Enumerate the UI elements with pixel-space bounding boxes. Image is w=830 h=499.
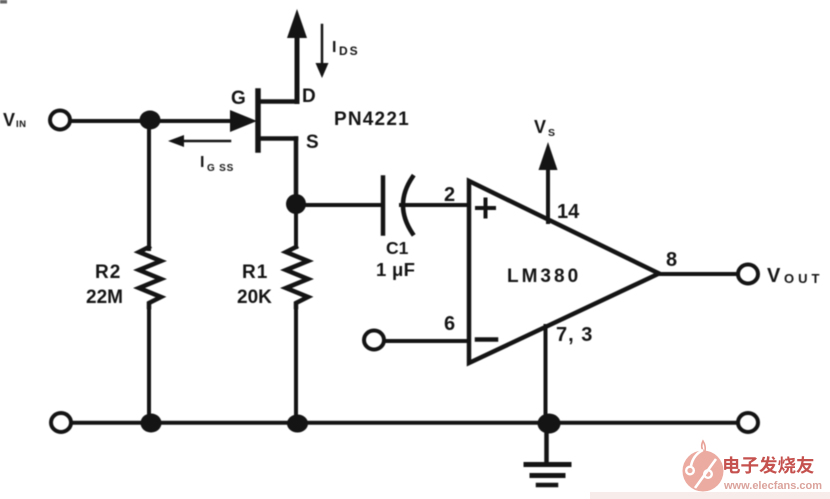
- svg-text:22M: 22M: [86, 287, 123, 308]
- resistor R1 20K: [286, 247, 308, 307]
- svg-text:I: I: [200, 154, 204, 171]
- wire pin 7,3 to ground rail: [544, 326, 548, 422]
- svg-text:OUT: OUT: [784, 271, 823, 286]
- svg-text:S: S: [306, 132, 319, 153]
- svg-text:14: 14: [557, 201, 580, 223]
- node: input junction dot: [140, 111, 161, 130]
- minus input symbol: [477, 337, 496, 342]
- watermark text: [724, 456, 814, 474]
- wire pin 6: [384, 339, 469, 343]
- pin 6 terminal (open circle): [364, 331, 384, 350]
- wire source to C1: [296, 203, 381, 207]
- svg-text:G SS: G SS: [207, 163, 234, 174]
- svg-text:S: S: [548, 127, 555, 139]
- svg-text:I: I: [332, 39, 336, 56]
- label VOUT: [767, 265, 823, 287]
- svg-text:20K: 20K: [237, 287, 272, 308]
- current arrow IDS: [316, 25, 329, 78]
- svg-text:2: 2: [444, 184, 455, 206]
- wire junction down to R2: [147, 121, 151, 249]
- wire source dot to R1: [294, 204, 298, 247]
- output terminal (open circle): [738, 265, 758, 284]
- svg-text:LM380: LM380: [507, 266, 581, 287]
- current arrow IGSS: [168, 135, 230, 147]
- input terminal (open circle): [50, 111, 70, 130]
- svg-text:www.elecfans.com: www.elecfans.com: [723, 480, 822, 492]
- ground symbol: [526, 423, 569, 485]
- svg-text:7, 3: 7, 3: [556, 324, 593, 346]
- svg-text:1 μF: 1 μF: [376, 259, 415, 280]
- right rail terminal (open circle): [738, 413, 758, 432]
- bottom rail wire: [71, 421, 738, 425]
- op-amp U1 LM380: [469, 181, 659, 363]
- svg-text:PN4221: PN4221: [334, 109, 410, 130]
- svg-text:IN: IN: [16, 119, 27, 130]
- capacitor C1: [383, 177, 413, 234]
- scan speck top-left corner: [0, 0, 7, 4]
- node: R2 rail junction: [141, 414, 162, 433]
- resistor R2 22M: [139, 247, 161, 307]
- transistor Q1 PN4221 (JFET): [258, 9, 307, 203]
- wire R1 to rail: [294, 307, 298, 423]
- label IGSS: [200, 154, 234, 174]
- plus input symbol: [477, 200, 494, 217]
- svg-text:8: 8: [666, 249, 677, 271]
- svg-text:6: 6: [444, 313, 455, 335]
- svg-text:D: D: [302, 86, 316, 107]
- left rail terminal (open circle): [51, 413, 71, 432]
- svg-text:DS: DS: [339, 44, 360, 58]
- wire VIN to gate arrow: [70, 119, 233, 123]
- power VS arrow: [539, 142, 558, 222]
- node: amp ground rail junction: [538, 414, 561, 434]
- gate arrowhead into Q1: [230, 110, 257, 132]
- label VIN: [3, 110, 27, 130]
- svg-text:V: V: [767, 265, 781, 287]
- bottom noise strip: [590, 492, 830, 499]
- label VS: [534, 117, 555, 139]
- watermark logo elecfans: [683, 441, 724, 492]
- svg-text:V: V: [3, 110, 15, 130]
- svg-text:R2: R2: [95, 262, 121, 283]
- node: R1 rail junction: [287, 415, 308, 433]
- node: source junction dot: [286, 194, 306, 214]
- wire C1 to pin 2: [401, 203, 469, 207]
- svg-text:V: V: [534, 117, 546, 137]
- wire output pin 8: [659, 272, 737, 276]
- label IDS: [332, 39, 360, 58]
- svg-text:C1: C1: [386, 238, 409, 258]
- svg-text:G: G: [231, 88, 246, 109]
- svg-text:R1: R1: [242, 262, 268, 283]
- wire R2 to rail: [147, 307, 151, 423]
